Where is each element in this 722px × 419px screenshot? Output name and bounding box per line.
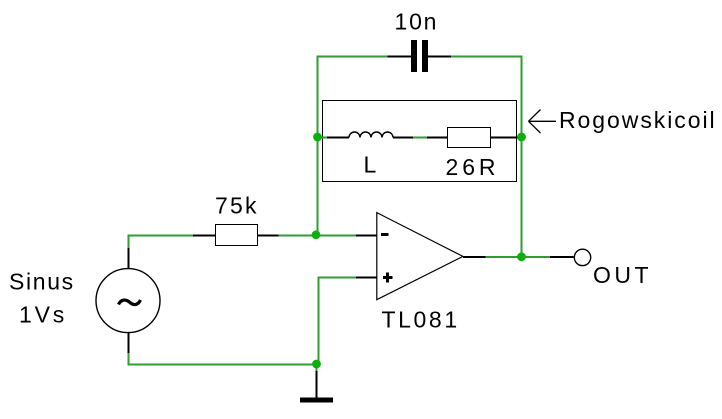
wire left vertical (inverting node) bbox=[317, 56, 319, 236]
op-amp plus input lead bbox=[356, 277, 377, 279]
svg-text:26R: 26R bbox=[446, 154, 500, 180]
ground bbox=[300, 371, 333, 403]
wire plus input (green) bbox=[318, 278, 357, 365]
wire node to op-amp minus (green) bbox=[316, 235, 356, 237]
rogowski coil box bbox=[323, 101, 517, 182]
wire top feedback (green) bbox=[317, 56, 523, 58]
junction dot right (output node / coil) bbox=[517, 133, 526, 142]
minus input symbol bbox=[381, 233, 389, 236]
svg-text:L: L bbox=[364, 151, 377, 177]
wire stub left of inductor (green) bbox=[318, 137, 328, 139]
junction dot left (inverting node / coil) bbox=[313, 133, 322, 142]
op-amp TL081 bbox=[377, 213, 463, 300]
junction dot ground node bbox=[312, 360, 321, 369]
wire 75k to inverting node (green) bbox=[279, 235, 317, 237]
plus input symbol bbox=[383, 276, 393, 279]
resistor 26R bbox=[427, 128, 521, 148]
svg-text:OUT: OUT bbox=[593, 262, 652, 288]
wire output to node (green) bbox=[486, 256, 523, 258]
wire source to resistor 75k (green) bbox=[128, 235, 194, 249]
svg-text:75k: 75k bbox=[215, 193, 259, 219]
resistor 75k bbox=[193, 225, 279, 246]
annotation arrow bbox=[529, 110, 557, 134]
svg-text:Rogowskicoil: Rogowskicoil bbox=[559, 107, 717, 133]
OUT terminal lead bbox=[550, 256, 574, 258]
junction dot inverting node bbox=[312, 230, 321, 239]
capacitor 10n bbox=[388, 40, 452, 72]
wire between L and 26R (green) bbox=[413, 137, 427, 139]
wire node to OUT terminal (green) bbox=[522, 256, 551, 258]
sine symbol bbox=[119, 300, 141, 305]
svg-text:Sinus: Sinus bbox=[9, 268, 75, 294]
junction dot output node bbox=[517, 252, 526, 261]
op-amp minus input lead bbox=[356, 235, 377, 237]
inductor L bbox=[327, 132, 413, 138]
op-amp output lead bbox=[463, 256, 486, 258]
voltage source Sinus bbox=[96, 248, 160, 353]
output terminal OUT bbox=[574, 249, 590, 265]
svg-text:TL081: TL081 bbox=[382, 306, 460, 332]
wire source bottom to ground node (green) bbox=[128, 353, 317, 371]
wire right vertical (output node) bbox=[521, 56, 523, 258]
svg-text:10n: 10n bbox=[395, 9, 439, 35]
svg-text:1Vs: 1Vs bbox=[19, 301, 67, 327]
